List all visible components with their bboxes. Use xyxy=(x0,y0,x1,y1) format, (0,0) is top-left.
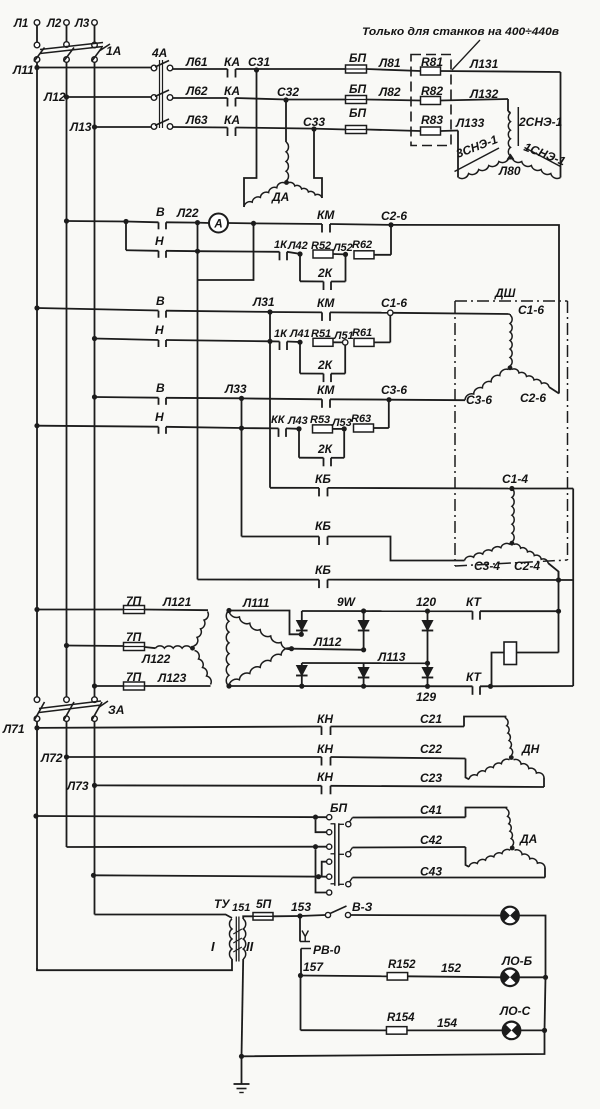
svg-text:ТУ: ТУ xyxy=(214,897,230,911)
svg-text:В: В xyxy=(156,381,165,395)
node xyxy=(251,221,256,226)
svg-text:Л42: Л42 xyxy=(287,240,308,252)
wire primary bottom lead xyxy=(37,959,232,970)
fuse БП row1 xyxy=(346,65,367,73)
wire bottom return xyxy=(242,1030,545,1056)
connector pin xyxy=(327,844,332,849)
contact КН xyxy=(321,757,323,766)
wire from Л11 xyxy=(34,305,39,310)
svg-text:КН: КН xyxy=(317,770,333,784)
svg-text:БП: БП xyxy=(330,801,347,815)
contact КМ xyxy=(321,224,323,233)
wire primary top lead xyxy=(95,915,233,919)
wire xyxy=(333,428,345,430)
svg-text:КН: КН xyxy=(317,712,333,726)
svg-text:2К: 2К xyxy=(317,442,334,456)
wire xyxy=(466,808,507,818)
fuse БП row3 xyxy=(346,126,367,134)
node Л53 xyxy=(342,426,347,431)
svg-text:Л11: Л11 xyxy=(12,63,34,77)
connector pin xyxy=(346,882,351,887)
wire В branch xyxy=(126,221,159,224)
node ДА star point xyxy=(284,180,289,185)
diode lower phase3 xyxy=(427,663,429,667)
wire Л122 xyxy=(145,647,156,648)
fuse 7П xyxy=(124,643,145,651)
svg-text:С33: С33 xyxy=(303,115,325,129)
motor winding ДА phase3 xyxy=(515,850,546,868)
node xyxy=(313,844,318,849)
node Л43 xyxy=(296,426,301,431)
motor winding ДА phase1 xyxy=(507,809,514,846)
svg-text:5П: 5П xyxy=(256,897,272,911)
wire xyxy=(241,398,243,428)
fuse БП row2 xyxy=(346,96,367,104)
wire to 2СНЭ-1 xyxy=(507,99,509,111)
wire xyxy=(519,976,546,978)
svg-text:4А: 4А xyxy=(151,46,167,60)
svg-text:Л3: Л3 xyxy=(74,18,90,30)
svg-text:1К: 1К xyxy=(274,328,288,340)
svg-text:Л31: Л31 xyxy=(252,295,275,309)
wire Л22 xyxy=(166,221,198,223)
svg-text:Н: Н xyxy=(155,323,164,337)
node Л33 xyxy=(239,396,244,401)
wire 2К row xyxy=(298,429,300,458)
svg-text:БП: БП xyxy=(349,106,366,120)
svg-text:2К: 2К xyxy=(317,266,334,280)
wire Н branch xyxy=(34,423,39,428)
svg-text:9W: 9W xyxy=(337,595,357,609)
wire КН row2 xyxy=(67,756,322,758)
svg-text:Л111: Л111 xyxy=(242,596,270,610)
contact 2К xyxy=(323,458,325,467)
motor winding ДН phase1 xyxy=(506,718,513,755)
svg-text:В: В xyxy=(156,205,165,219)
wire xyxy=(544,868,546,878)
wire КБ row 2 xyxy=(242,536,320,538)
wire Л121 xyxy=(145,609,209,612)
wire xyxy=(466,759,470,780)
node xyxy=(488,684,493,689)
svg-text:R154: R154 xyxy=(387,1012,415,1024)
transformer ТУ core xyxy=(235,917,237,962)
node xyxy=(316,874,321,879)
node xyxy=(542,1028,547,1033)
node С33 xyxy=(311,126,316,131)
motor winding ДА phase2 xyxy=(469,849,510,866)
wire xyxy=(228,222,254,224)
connector pin xyxy=(327,830,332,835)
contact КБ xyxy=(318,580,320,589)
wire С41 xyxy=(353,816,466,818)
svg-text:Л72: Л72 xyxy=(40,751,63,765)
svg-text:Л13: Л13 xyxy=(69,120,92,134)
svg-text:КА: КА xyxy=(224,84,240,98)
wire xyxy=(166,250,198,252)
svg-text:Л2: Л2 xyxy=(46,18,62,30)
connector pin xyxy=(346,852,351,857)
wire Л133 xyxy=(441,130,459,133)
connector pin xyxy=(327,890,332,895)
svg-text:R53: R53 xyxy=(310,414,330,426)
wire xyxy=(331,281,346,283)
node ДН star point xyxy=(509,755,514,760)
winding С2-6 xyxy=(512,369,550,387)
svg-text:С3-4: С3-4 xyxy=(474,559,500,573)
svg-text:Л122: Л122 xyxy=(141,652,171,666)
wire С43 xyxy=(353,877,546,879)
lamp ЛО-Б xyxy=(501,969,519,987)
wire xyxy=(236,128,315,129)
contact КТ xyxy=(472,611,474,620)
winding ДА phase 1 xyxy=(286,142,289,181)
node 7П row1 xyxy=(34,607,39,612)
connector pin xyxy=(327,815,332,820)
svg-text:Л33: Л33 xyxy=(224,382,247,396)
svg-text:С2-6: С2-6 xyxy=(520,391,546,405)
wire xyxy=(331,457,344,459)
wire xyxy=(520,1029,545,1031)
svg-text:КТ: КТ xyxy=(466,670,483,684)
svg-text:Л1: Л1 xyxy=(13,18,28,30)
wire xyxy=(374,427,389,429)
node С3-6 xyxy=(386,397,391,402)
wire xyxy=(166,427,242,428)
wire С22 xyxy=(331,757,466,759)
node Л52 xyxy=(343,252,348,257)
svg-text:Л43: Л43 xyxy=(287,415,308,427)
svg-text:152: 152 xyxy=(441,961,461,975)
winding С3-6 xyxy=(465,369,509,400)
svg-text:ЛО-Б: ЛО-Б xyxy=(501,954,533,968)
wire xyxy=(466,847,470,867)
wire КН row1 xyxy=(37,727,322,728)
node xyxy=(239,1054,244,1059)
node ДА star point xyxy=(510,846,515,851)
node delta bottom xyxy=(226,683,231,688)
wire xyxy=(328,487,512,490)
node xyxy=(123,219,128,224)
terminal Л1 xyxy=(34,20,40,26)
node Л51 xyxy=(343,340,348,345)
contact Н xyxy=(158,251,160,258)
wire Л81 xyxy=(367,69,421,71)
contact 1К xyxy=(279,342,281,351)
svg-text:Н: Н xyxy=(155,234,164,248)
wire xyxy=(331,373,345,375)
svg-text:С2-6: С2-6 xyxy=(381,209,407,223)
node xyxy=(556,609,561,614)
svg-text:2СНЭ-1: 2СНЭ-1 xyxy=(518,115,563,129)
node 157 xyxy=(298,973,303,978)
resistor R51 xyxy=(313,338,333,346)
node С2-6 xyxy=(388,222,393,227)
wire Л63 xyxy=(173,126,228,129)
svg-text:С1-6: С1-6 xyxy=(381,296,407,310)
svg-text:С41: С41 xyxy=(420,803,442,817)
svg-text:7П: 7П xyxy=(126,630,142,644)
node 7П row2 xyxy=(64,643,69,648)
contact КН xyxy=(321,786,323,795)
wire Н branch xyxy=(125,222,127,251)
lamp ЛО-С xyxy=(503,1022,521,1040)
svg-text:КМ: КМ xyxy=(317,296,335,310)
svg-text:120: 120 xyxy=(416,595,436,609)
node С32 xyxy=(283,97,288,102)
winding ДА phase 2 xyxy=(244,183,285,207)
svg-text:R51: R51 xyxy=(311,328,331,340)
node Л73 xyxy=(92,783,97,788)
contact КТ xyxy=(472,686,474,695)
wire БП row3 xyxy=(91,873,96,878)
node С31 xyxy=(254,67,259,72)
winding С1-4 xyxy=(512,489,514,543)
winding 3СНЭ-1 xyxy=(459,158,510,179)
svg-text:II: II xyxy=(246,939,254,954)
node xyxy=(425,609,430,614)
svg-text:С1-4: С1-4 xyxy=(502,472,528,486)
contact КН xyxy=(321,727,323,736)
svg-text:Л131: Л131 xyxy=(469,57,499,71)
wire 154 xyxy=(407,1029,503,1031)
svg-text:Л53: Л53 xyxy=(331,417,352,429)
wire xyxy=(374,341,390,343)
node xyxy=(361,684,366,689)
contact КМ xyxy=(321,399,323,408)
wire xyxy=(269,312,271,341)
wire xyxy=(36,25,38,42)
svg-text:Л82: Л82 xyxy=(378,85,401,99)
svg-text:R63: R63 xyxy=(351,413,371,425)
contact КК xyxy=(278,428,280,437)
svg-text:Л112: Л112 xyxy=(313,635,342,649)
wire xyxy=(330,398,389,400)
wire Л131 xyxy=(441,71,561,72)
wire positive bus left xyxy=(229,611,301,635)
bus wire Л12 xyxy=(67,96,152,98)
connector pin xyxy=(327,859,332,864)
wire С3-6 to ДШ xyxy=(389,399,465,402)
wire xyxy=(519,916,546,978)
svg-text:С23: С23 xyxy=(420,771,442,785)
svg-text:Л22: Л22 xyxy=(176,206,199,220)
wire positive bus xyxy=(302,610,473,612)
node xyxy=(425,684,430,689)
svg-text:Л51: Л51 xyxy=(333,330,354,342)
resistor R152 xyxy=(387,973,408,981)
wire 1К branch xyxy=(198,250,280,253)
fuse 7П xyxy=(124,682,145,690)
connector pin xyxy=(346,822,351,827)
node Л42 xyxy=(297,251,302,256)
wire xyxy=(549,387,559,394)
svg-text:А: А xyxy=(213,219,222,231)
svg-text:R81: R81 xyxy=(421,55,443,69)
svg-text:R83: R83 xyxy=(421,113,443,127)
wire negative bus xyxy=(229,685,473,687)
terminal Л3 xyxy=(92,20,98,26)
node xyxy=(313,815,318,820)
wire xyxy=(95,685,124,687)
svg-text:С2-4: С2-4 xyxy=(514,559,540,573)
wire Л82 xyxy=(367,100,421,101)
wire Л33 xyxy=(166,397,242,400)
fuse 7П xyxy=(124,606,145,614)
contact РВ-О time delay xyxy=(299,916,301,942)
diode upper phase1 xyxy=(301,611,303,621)
wire to 1СНЭ-1 xyxy=(560,72,562,178)
diode lower phase1 xyxy=(301,663,303,666)
node xyxy=(361,608,366,613)
wire xyxy=(236,98,287,100)
contact КБ xyxy=(318,537,320,546)
wire from Л12 xyxy=(64,218,69,223)
wire from Л13 xyxy=(92,394,97,399)
contact 2К xyxy=(323,374,325,383)
svg-text:Л62: Л62 xyxy=(185,84,208,98)
relay coil КТ xyxy=(504,642,517,665)
wire Л132 xyxy=(441,99,509,101)
svg-text:Л81: Л81 xyxy=(378,56,401,70)
node xyxy=(195,249,200,254)
node delta right xyxy=(289,646,294,651)
bus wire Л13 xyxy=(95,126,152,128)
svg-text:129: 129 xyxy=(416,690,436,704)
wire xyxy=(67,645,124,648)
wire 153 xyxy=(273,915,300,917)
resistor R82 xyxy=(421,97,441,105)
winding С1-6 xyxy=(510,315,512,366)
svg-text:КН: КН xyxy=(317,742,333,756)
node xyxy=(299,632,304,637)
resistor R62 xyxy=(354,251,374,259)
wire С33 drop xyxy=(314,129,322,198)
svg-text:157: 157 xyxy=(303,960,324,974)
wire secondary top lead 151 xyxy=(243,916,253,919)
wire Л41 xyxy=(287,341,300,344)
wire КН row3 xyxy=(95,784,322,786)
svg-text:I: I xyxy=(211,939,215,954)
svg-text:РВ-0: РВ-0 xyxy=(313,943,341,957)
winding 1СНЭ-1 xyxy=(512,158,561,179)
contact В xyxy=(158,311,160,318)
transformer primary winding 1 xyxy=(194,612,209,647)
contact 2К xyxy=(323,282,325,291)
svg-text:С42: С42 xyxy=(420,833,442,847)
transformer ТУ secondary II xyxy=(243,919,246,959)
wire vertical to КБ row xyxy=(241,428,243,536)
svg-text:КБ: КБ xyxy=(315,519,331,533)
node star point 4 xyxy=(510,541,515,546)
svg-text:7П: 7П xyxy=(126,670,142,684)
svg-text:КБ: КБ xyxy=(315,472,331,486)
wire КБ row 3 xyxy=(198,579,320,581)
wire xyxy=(37,609,124,611)
motor winding ДН phase3 xyxy=(514,759,545,777)
vertical bus wire Л13 xyxy=(94,127,96,697)
svg-text:КК: КК xyxy=(271,414,286,426)
svg-text:КМ: КМ xyxy=(317,208,335,222)
wire 2К row xyxy=(299,254,301,281)
node Л71 xyxy=(34,725,39,730)
svg-text:Л71: Л71 xyxy=(2,722,25,736)
svg-text:Л121: Л121 xyxy=(162,595,192,609)
wire 1К branch xyxy=(270,340,280,342)
bus wire Л11 xyxy=(37,67,151,69)
node Л31 xyxy=(267,309,272,314)
svg-text:Л80: Л80 xyxy=(498,164,521,178)
resistor R154 xyxy=(386,1027,407,1035)
wire relay left lead xyxy=(492,653,505,687)
wire 152 xyxy=(408,976,502,977)
wire С42 xyxy=(353,846,466,849)
svg-text:С1-6: С1-6 xyxy=(518,303,544,317)
wire xyxy=(464,717,506,727)
wire R152 row xyxy=(301,975,388,978)
transformer primary winding 2 xyxy=(156,646,192,648)
svg-text:2К: 2К xyxy=(317,358,334,372)
svg-text:Н: Н xyxy=(155,410,164,424)
contact Н xyxy=(158,427,160,434)
contact КМ xyxy=(321,312,323,321)
node xyxy=(361,647,366,652)
svg-text:Л133: Л133 xyxy=(455,116,485,130)
node Л12 xyxy=(64,94,69,99)
transformer ТУ primary I xyxy=(229,919,232,959)
svg-text:КА: КА xyxy=(224,55,240,69)
svg-text:Л12: Л12 xyxy=(43,90,66,104)
wire xyxy=(367,130,421,132)
node Л41 xyxy=(297,340,302,345)
svg-text:КТ: КТ xyxy=(466,595,483,609)
wire Л31 xyxy=(166,311,270,312)
svg-text:1К: 1К xyxy=(274,239,288,251)
svg-text:Л61: Л61 xyxy=(185,55,208,69)
svg-text:БП: БП xyxy=(349,51,366,65)
wire xyxy=(558,572,560,653)
ammeter А xyxy=(198,222,210,224)
wire Л62 xyxy=(173,97,228,99)
transformer primary winding 3 xyxy=(195,651,212,685)
contact В xyxy=(158,398,160,405)
node Л80 xyxy=(507,154,515,160)
svg-text:R82: R82 xyxy=(421,84,443,98)
node Л13 xyxy=(92,124,97,129)
contact КБ xyxy=(318,488,320,497)
svg-text:Л73: Л73 xyxy=(66,779,89,793)
svg-text:ДА: ДА xyxy=(271,190,289,204)
svg-text:Л63: Л63 xyxy=(185,113,208,127)
resistor R63 xyxy=(354,424,374,432)
wire Л123 xyxy=(145,685,211,687)
wire С2-6 to ДШ xyxy=(391,225,559,394)
node С1-4 xyxy=(509,486,514,491)
resistor R53 xyxy=(313,425,333,433)
svg-text:С22: С22 xyxy=(420,742,442,756)
winding 2СНЭ-1 xyxy=(508,113,510,156)
svg-text:Л123: Л123 xyxy=(157,671,187,685)
vertical bus wire Л12 xyxy=(66,97,68,697)
wire xyxy=(333,341,343,343)
node xyxy=(556,577,561,582)
svg-text:ДШ: ДШ xyxy=(494,286,516,300)
contact В xyxy=(158,222,160,229)
wire relay right lead xyxy=(517,652,559,654)
svg-text:ЗА: ЗА xyxy=(108,703,124,717)
svg-text:Л113: Л113 xyxy=(377,650,406,664)
wire xyxy=(480,685,573,687)
